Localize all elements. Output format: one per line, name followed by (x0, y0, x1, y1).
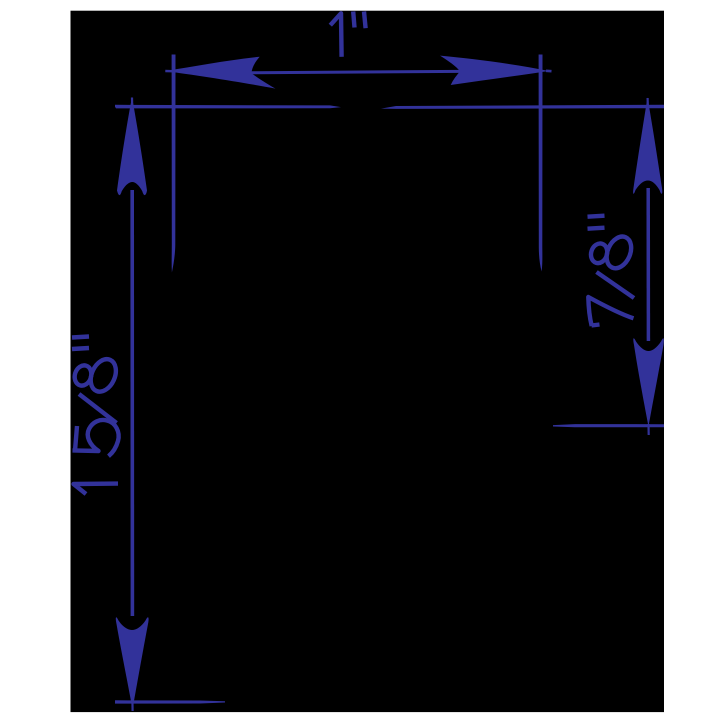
glyph / (597, 272, 635, 298)
dim 15/8in: up arrow tip spike (131, 98, 133, 109)
dim 15/8in: lower arrowhead (points down) (116, 617, 149, 709)
dim 1in: shaft (251, 71, 460, 72)
glyph 1 (74, 484, 119, 494)
text 7/8in rotated -90 at right (588, 216, 636, 326)
text 1in: double prime (353, 12, 365, 29)
text 1in: digit 1 (top center) (330, 13, 341, 57)
dim 7/8in: upper arrowhead (633, 98, 662, 194)
text 15/8in rotated -90 at left (72, 337, 121, 495)
glyph 7: top bar with start hook and diagonal leg (588, 297, 633, 326)
dim 7/8in: up arrow tip spike (646, 98, 649, 108)
glyph double prime (72, 337, 89, 350)
dim 7/8in: shaft (x~648.3) (646, 188, 650, 341)
dim 1in: right arrowhead (440, 56, 549, 85)
glyph 8 big lobe (86, 355, 121, 395)
dim 15/8in: bottom witness line (y~702) (115, 700, 225, 703)
top edge line left stroke (witness overlap), y~106 (115, 105, 341, 109)
glyph / (79, 394, 117, 423)
dim 7/8in: bottom witness line (y~425.5) (553, 424, 664, 427)
dim 1in: right tip stub (546, 70, 552, 73)
glyph double prime (588, 216, 605, 229)
dim 7/8in: lower arrowhead (633, 338, 664, 426)
dim 15/8in: shaft (x~132) (130, 190, 134, 616)
glyph 5 (73, 420, 119, 456)
glyph 8 small lobe (72, 363, 94, 388)
dim 1in: left arrowhead (165, 57, 276, 89)
dim 1in: left tip spike (165, 70, 176, 73)
top edge line right stroke, y~107 (381, 105, 664, 109)
glyph 8 small lobe (588, 241, 609, 265)
dim 7/8in: lower arrow tail (647, 424, 649, 435)
dim 15/8in: down arrow tip spike (131, 699, 133, 711)
dim 15/8in: upper arrowhead (points up, tip above top line) (117, 97, 147, 195)
dim 1in: right witness line (x~540.5) (539, 55, 543, 272)
glyph 8 big lobe (602, 233, 636, 272)
text: all hand-drawn style stroked glyph paths (72, 12, 636, 495)
dim 1in: left witness line (x~173.5) (172, 55, 176, 273)
